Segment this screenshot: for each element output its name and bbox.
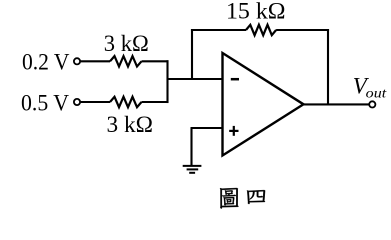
svg-text:0.2 V: 0.2 V: [22, 50, 70, 75]
svg-text:0.5 V: 0.5 V: [21, 90, 69, 115]
wire input1 left lead: [81, 60, 110, 62]
wire output: [304, 103, 369, 105]
svg-text:3 kΩ: 3 kΩ: [107, 112, 154, 137]
node Vin1 terminal circle: [74, 58, 80, 64]
wire non-inverting input: [191, 127, 223, 129]
svg-text:3 kΩ: 3 kΩ: [104, 31, 149, 56]
op-amp U1 triangle: [223, 53, 304, 156]
wire summing node to inverting input: [168, 78, 223, 80]
caption figure four char TU: [220, 188, 238, 209]
resistor RF 15 kOhm zigzag: [246, 25, 276, 35]
op-amp plus sign: [229, 130, 238, 132]
wire input2 right lead: [142, 101, 169, 103]
wire feedback top left segment: [191, 29, 246, 31]
wire input1 right lead: [142, 60, 169, 62]
wire input2 left lead: [81, 101, 110, 103]
resistor R2 3 kOhm zigzag: [110, 97, 142, 107]
ground symbol: [183, 166, 202, 173]
op-amp minus sign: [231, 78, 239, 81]
wire feedback top right segment: [276, 29, 329, 31]
wire ground stem: [190, 128, 192, 166]
node Vin2 terminal circle: [74, 99, 80, 105]
node Vout terminal circle: [369, 101, 375, 107]
wire joining vertical bus: [166, 60, 168, 103]
svg-text:out: out: [366, 87, 388, 102]
wire feedback left vertical: [191, 29, 193, 79]
resistor R1 3 kOhm zigzag: [110, 56, 142, 66]
wire feedback right vertical: [327, 29, 329, 104]
caption figure four char SI: [247, 190, 265, 204]
svg-text:15 kΩ: 15 kΩ: [226, 0, 286, 23]
